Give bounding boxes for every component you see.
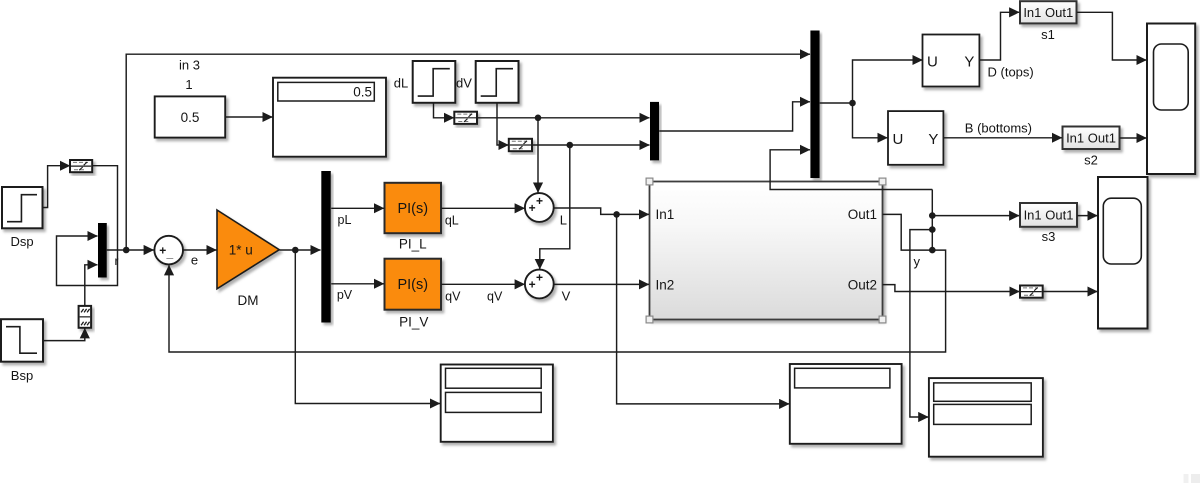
svg-text:0.5: 0.5: [181, 110, 200, 125]
demux D1: [321, 171, 331, 323]
svg-text:In1 Out1: In1 Out1: [1024, 208, 1074, 223]
wire junction to selector SEL2: [853, 103, 888, 138]
display DISP3 (one row): [790, 364, 902, 444]
wire node y up to mux M3 input3: [770, 150, 932, 190]
node y junction 1: [929, 212, 936, 219]
svg-text:1: 1: [185, 77, 192, 92]
wire sum SV to subsystem In2 (signal V): [553, 283, 649, 285]
svg-text:B (bottoms): B (bottoms): [965, 121, 1032, 136]
sum SL: [525, 193, 554, 222]
label V: [562, 289, 571, 304]
node dL junction: [535, 115, 542, 122]
selection handle bottom-right: [879, 316, 886, 323]
wire node y down to display DISP4: [910, 230, 932, 417]
wire Bsp to rate-transition RT2: [43, 328, 85, 340]
svg-text:U: U: [927, 54, 938, 71]
subsystem (selected, In1 In2 Out1 Out2): [650, 182, 883, 320]
svg-text:e: e: [191, 253, 198, 268]
rate transition RT1: [70, 160, 92, 172]
wire demux D1 out1 to PI_L (signal pL): [331, 207, 384, 209]
svg-text:s2: s2: [1084, 153, 1098, 168]
svg-text:qL: qL: [445, 214, 459, 228]
label D (tops): [988, 65, 1034, 80]
svg-text:Dsp: Dsp: [10, 234, 33, 249]
PI controller PI_L: [385, 183, 442, 233]
wire mux M2 to mux M3 input2: [659, 102, 810, 131]
wire node L down to display DISP3: [617, 214, 790, 404]
svg-text:Out2: Out2: [848, 277, 877, 292]
label PI_L: [399, 237, 427, 252]
wire s3 to scope SC2 input1: [1077, 215, 1097, 217]
node r junction: [123, 247, 130, 254]
svg-text:V: V: [562, 289, 571, 304]
svg-text:D (tops): D (tops): [988, 65, 1034, 80]
rate transition RT4: [509, 139, 532, 151]
selection handle top-left: [646, 178, 653, 185]
sum S1: [154, 236, 183, 265]
wire constant to display DISP1: [225, 116, 272, 118]
label qV first: [445, 290, 461, 304]
selection handle bottom-left: [646, 316, 653, 323]
step source dV: [476, 61, 519, 103]
selection handle top-right: [879, 178, 886, 185]
wire mux M3 output to junction: [820, 102, 853, 104]
gain DM: [217, 210, 279, 289]
label B (bottoms): [965, 121, 1032, 136]
subsystem s2: [1063, 127, 1120, 150]
display DISP4 (two rows): [929, 378, 1043, 457]
svg-text:PI(s): PI(s): [397, 201, 428, 217]
svg-text:s3: s3: [1042, 229, 1056, 244]
wire Dsp to rate-transition RT1: [42, 166, 60, 208]
wire SEL2 to subsystem s2 (signal B bottoms): [944, 137, 1062, 139]
label L: [560, 213, 567, 228]
rate transition RT3: [454, 112, 477, 124]
svg-text:dV: dV: [456, 76, 472, 91]
svg-text:s1: s1: [1041, 27, 1055, 42]
mux M1: [98, 223, 107, 278]
wire gain output down to display DISP2: [295, 250, 440, 404]
label PI_V: [399, 315, 428, 330]
svg-text:Y: Y: [964, 54, 974, 71]
label 1: [185, 77, 192, 92]
wire node y to subsystem s3: [932, 215, 1019, 217]
wire arrow into RT1: [60, 165, 70, 167]
mux M3: [810, 31, 819, 179]
svg-text:qV: qV: [487, 290, 503, 304]
wire RT5 to scope SC2 input2: [1043, 291, 1098, 293]
svg-text:PI(s): PI(s): [397, 277, 428, 293]
wire s1 to scope SC1 input1: [1077, 12, 1147, 60]
svg-text:L: L: [560, 213, 567, 228]
svg-text:_: _: [166, 246, 174, 260]
PI controller PI_V: [385, 259, 442, 310]
svg-text:qV: qV: [445, 290, 461, 304]
svg-text:+: +: [536, 194, 543, 208]
sum SV: [525, 270, 554, 299]
svg-text:PI_V: PI_V: [399, 315, 428, 330]
wire junction to selector SEL1: [853, 60, 923, 103]
wire RT3 to mux M2 input1: [477, 117, 649, 119]
svg-text:Y: Y: [928, 131, 938, 148]
svg-text:Bsp: Bsp: [11, 368, 33, 383]
svg-text:In1: In1: [656, 207, 675, 222]
wire subsystem Out2 to rate-transition RT5: [883, 285, 1020, 292]
label in 3: [179, 58, 200, 73]
svg-text:Out1: Out1: [848, 207, 877, 222]
node y junction 2: [929, 226, 936, 233]
wire dV branch down to sum SV top: [540, 145, 570, 269]
svg-text:1* u: 1* u: [229, 243, 253, 258]
display DISP2 (two rows): [441, 365, 553, 442]
label qV second: [487, 290, 503, 304]
wire RT1 to mux M1 input1 (routed): [57, 166, 118, 286]
svg-text:PI_L: PI_L: [399, 237, 427, 252]
svg-text:In1 Out1: In1 Out1: [1066, 130, 1116, 145]
scope SC2: [1098, 177, 1148, 329]
scope SC1: [1147, 24, 1195, 175]
subsystem s3: [1020, 203, 1077, 227]
wire dL down to rate-transition RT3: [434, 103, 455, 118]
step source dL: [413, 61, 456, 103]
constant block 0.5: [155, 96, 226, 137]
svg-text:pL: pL: [338, 213, 352, 227]
wire node r up to mux M3 input1 (signal in 3): [126, 54, 810, 250]
label pV: [337, 288, 353, 302]
wire sum SL to subsystem In1 (signal L): [553, 208, 649, 214]
label qL: [445, 214, 459, 228]
label pL: [338, 213, 352, 227]
svg-text:y: y: [914, 254, 921, 269]
svg-text:+: +: [536, 270, 543, 284]
wire gain DM to demux D1: [280, 249, 321, 251]
label e: [191, 253, 198, 268]
node y junction 3: [929, 247, 936, 254]
rate transition RT2: [79, 306, 92, 328]
wire PI_V to sum SV (signal qV): [441, 283, 525, 285]
svg-text:In1 Out1: In1 Out1: [1023, 5, 1073, 20]
mux M2: [650, 102, 659, 160]
label r: [115, 254, 119, 268]
selector SEL1 U-Y: [923, 35, 980, 87]
node after gain DM junction: [292, 247, 299, 254]
wire SEL1 to subsystem s1 (signal D tops): [979, 12, 1019, 60]
svg-text:DM: DM: [238, 293, 259, 308]
wire sum S1 to gain DM (signal e): [183, 249, 216, 251]
selector SEL2 U-Y: [888, 111, 943, 165]
label y: [914, 254, 921, 269]
step source Bsp: [1, 319, 43, 362]
svg-text:dL: dL: [394, 76, 408, 91]
subsystem s1: [1020, 1, 1077, 23]
wire node y feedback to sum S1 minus input: [169, 250, 946, 352]
wire dV down to rate-transition RT4: [497, 103, 509, 145]
label DM: [238, 293, 259, 308]
rate transition RT5: [1020, 286, 1043, 298]
wire mux M1 to sum S1 (node r): [107, 249, 154, 251]
label dL: [394, 76, 408, 91]
node dV junction: [567, 142, 574, 149]
svg-text:U: U: [893, 131, 904, 148]
svg-text:In2: In2: [656, 277, 675, 292]
svg-text:0.5: 0.5: [353, 84, 372, 99]
svg-text:+: +: [159, 244, 166, 258]
wire s2 to scope SC1 input2: [1120, 137, 1147, 139]
wire RT2 to mux M1 input2: [85, 265, 98, 306]
step source Dsp: [2, 187, 43, 228]
node L junction: [613, 211, 620, 218]
wire PI_L to sum SL (signal qL): [441, 207, 525, 209]
wire RT4 to mux M2 input2: [532, 144, 649, 146]
node mux M3 output junction: [849, 100, 856, 107]
wire dL branch down to sum SL top: [537, 118, 539, 193]
label dV: [456, 76, 472, 91]
wire node y vertical bus: [931, 190, 933, 251]
corner artifact mark: [1184, 474, 1200, 483]
svg-text:pV: pV: [337, 288, 353, 302]
svg-text:+: +: [529, 278, 536, 292]
wire subsystem Out1 to node y: [883, 214, 933, 250]
wire demux D1 out2 to PI_V (signal pV): [331, 283, 384, 285]
svg-text:in 3: in 3: [179, 58, 200, 73]
display DISP1 showing 0.5: [273, 78, 386, 157]
svg-text:+: +: [529, 201, 536, 215]
